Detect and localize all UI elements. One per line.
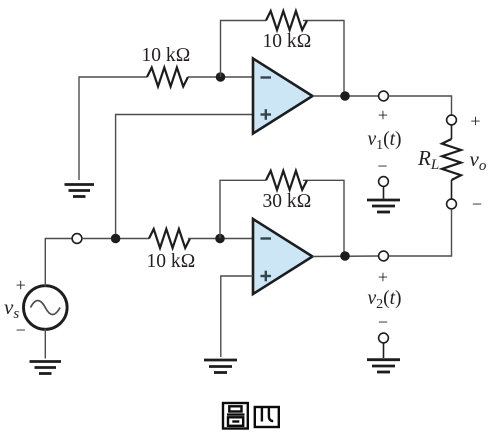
op-amp U2 minus sign [261, 237, 272, 239]
wire op-amp U2 output [313, 255, 379, 258]
svg-text:−: − [472, 194, 482, 214]
resistor RL (vertical) [442, 139, 461, 180]
source vs (sinusoidal) [24, 286, 68, 330]
ground (bottom op-amp + input) [204, 360, 237, 373]
svg-text:10 kΩ: 10 kΩ [262, 31, 311, 52]
wire op-amp U1 output [313, 95, 379, 97]
caption glyph SI (four) [255, 407, 279, 427]
ground (v1 reference) [367, 200, 400, 212]
wire resistor to node A [188, 76, 253, 78]
svg-text:10 kΩ: 10 kΩ [146, 251, 195, 272]
svg-text:10 kΩ: 10 kΩ [141, 45, 190, 66]
wire load bottom to v2 rail [388, 209, 451, 256]
wire + input of bottom op-amp to ground [221, 276, 253, 357]
svg-text:v2(t): v2(t) [367, 288, 401, 312]
wire feedback loop (top op-amp) [221, 21, 345, 97]
node B (main input node) [111, 234, 121, 244]
svg-text:v1(t): v1(t) [367, 129, 401, 153]
wire RL top lead [451, 125, 453, 139]
terminal v2 (open circle) [379, 251, 389, 261]
op-amp U1 (top) [253, 59, 313, 134]
resistor 10 kOhm (feedback, top) [266, 11, 307, 30]
wire v1 stub to ground [383, 186, 385, 198]
svg-text:−: − [16, 320, 26, 340]
terminal v2 ground stub (open circle) [379, 333, 389, 343]
svg-text:+: + [16, 275, 26, 295]
node C (inverting input junction, bottom) [215, 234, 225, 244]
wire to load top [388, 96, 451, 115]
svg-text:+: + [470, 111, 480, 131]
ground (source) [30, 362, 62, 374]
svg-text:−: − [378, 312, 388, 332]
ground (v2 reference) [367, 360, 400, 372]
wire + input of top op-amp down to input node [116, 115, 253, 239]
wire input rail [82, 238, 149, 240]
svg-text:vs: vs [4, 295, 19, 322]
wire resistor to node C [188, 238, 253, 240]
node output U2 [340, 251, 350, 261]
node output U1 [340, 91, 350, 101]
caption glyph TU (figure) [223, 403, 248, 429]
svg-text:RL: RL [417, 146, 439, 173]
resistor 30 kOhm (feedback, bottom) [266, 171, 307, 190]
svg-text:−: − [377, 156, 387, 176]
svg-text:vo: vo [470, 147, 487, 174]
svg-text:+: + [378, 267, 388, 287]
svg-text:30 kΩ: 30 kΩ [262, 191, 311, 212]
ground (left, top input) [65, 185, 95, 197]
wire v2 stub to ground [383, 343, 385, 358]
svg-text:+: + [378, 105, 388, 125]
resistor 10 kOhm (top-left input) [147, 68, 188, 87]
wire source bottom to ground [44, 329, 46, 359]
terminal RL bottom (open circle) [447, 199, 457, 209]
op-amp U1 minus sign [261, 76, 272, 78]
node A (inverting input junction, top) [216, 72, 226, 82]
terminal v1 ground stub (open circle) [379, 177, 389, 187]
wire source top to input rail [45, 239, 72, 287]
terminal v1 (open circle) [379, 91, 389, 101]
wire feedback loop (bottom op-amp) [220, 180, 344, 256]
op-amp U2 (bottom) [253, 219, 313, 294]
wire RL bottom lead [451, 180, 453, 199]
resistor 10 kOhm (bottom input) [149, 229, 190, 248]
sine wave inside source [31, 301, 61, 315]
terminal input (open circle) [72, 234, 82, 244]
terminal RL top (open circle) [447, 115, 457, 125]
wire left ground branch [79, 77, 147, 180]
op-amp U2 plus sign [261, 271, 272, 282]
op-amp U1 plus sign [261, 109, 272, 120]
